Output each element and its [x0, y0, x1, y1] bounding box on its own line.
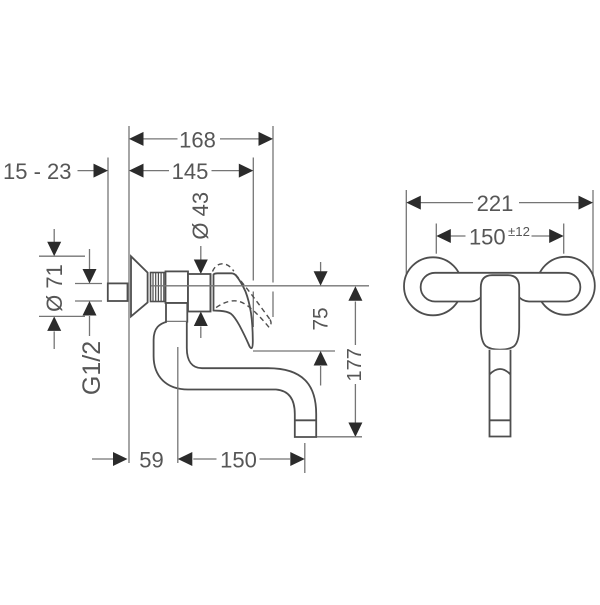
spout tube — [154, 322, 317, 437]
svg-text:168: 168 — [179, 127, 216, 152]
extension line wall-plane (15-23 left reference) — [107, 158, 109, 284]
dim 145 right arrow — [239, 164, 254, 178]
extension line 150 left — [435, 224, 437, 254]
extension line 145 right — [252, 158, 254, 328]
aerator joint line — [295, 419, 316, 421]
spout front bend arc — [490, 369, 511, 375]
extension line wall surface — [128, 126, 130, 463]
dim 150pm12 right arrow — [549, 229, 564, 243]
spout nut — [166, 303, 187, 322]
dim O71 tick top — [39, 255, 85, 257]
extension line spout outlet — [304, 443, 306, 473]
dim 177 line upper — [354, 302, 356, 346]
collar section — [166, 271, 189, 303]
thread lines — [153, 273, 164, 302]
tick 75 bottom (spout outlet level) — [253, 350, 335, 352]
dim 177 top arrow — [348, 286, 362, 301]
dim G1/2 lower stem — [89, 316, 91, 336]
dim 150 left arrow — [178, 452, 193, 466]
dim G1/2 bottom arrow — [83, 301, 97, 316]
dim O43 lower stem — [200, 327, 202, 339]
dim 75 lower stem — [320, 366, 322, 386]
svg-text:75: 75 — [310, 307, 333, 330]
spout front aerator line — [490, 419, 511, 421]
dim 145 left arrow — [129, 164, 144, 178]
dim 221 left arrow — [406, 196, 421, 210]
dim 177 bottom arrow — [348, 423, 362, 438]
svg-text:150: 150 — [220, 448, 257, 473]
dim 75 upper stem — [320, 262, 322, 272]
dim 168 right arrow — [259, 132, 274, 146]
valve body — [188, 274, 211, 312]
dim 15-23 leader line — [78, 170, 96, 172]
tick 177 bottom — [317, 436, 362, 438]
svg-text:Ø 71: Ø 71 — [42, 264, 67, 312]
dim O43 upper stem — [200, 246, 202, 260]
svg-text:±12: ±12 — [508, 224, 530, 239]
handle stem gap line — [210, 274, 212, 312]
dim O71 lower stem — [53, 331, 55, 349]
dim G1/2 tick bottom — [75, 300, 102, 302]
threaded section — [151, 273, 166, 302]
dim 168 line — [131, 138, 260, 140]
dim 221 line — [408, 202, 591, 204]
dim 221 right arrow — [579, 196, 594, 210]
svg-text:59: 59 — [139, 448, 163, 473]
svg-text:Ø 43: Ø 43 — [188, 192, 213, 240]
svg-text:150: 150 — [469, 225, 506, 250]
dim 150pm12 left arrow — [436, 229, 451, 243]
left escutcheon — [404, 257, 462, 315]
dim G1/2 tick top — [75, 283, 102, 285]
lever handle open position (dashed) upper edge — [236, 275, 271, 320]
dim O43 top arrow — [194, 260, 208, 275]
svg-text:177: 177 — [344, 348, 366, 381]
extension line 221 right — [592, 190, 594, 276]
extension line 221 left — [405, 190, 407, 276]
dim G1/2 top arrow — [83, 269, 97, 284]
dim 59 arrow — [113, 452, 128, 466]
dim O71 top arrow — [47, 242, 61, 257]
dim 177 line lower — [354, 384, 356, 423]
dim 75 top arrow — [314, 271, 328, 286]
dim O43 bottom arrow — [194, 312, 208, 327]
extension line 168 right — [272, 126, 274, 317]
dim 150pm12 line — [438, 235, 562, 237]
dim 150 line right — [260, 458, 291, 460]
dim 150 line left — [193, 458, 216, 460]
square wall nipple — [108, 283, 128, 301]
lever handle open position (dashed) tip — [269, 320, 271, 328]
escutcheon cone — [131, 256, 148, 316]
extension line spout axis bottom — [177, 347, 179, 463]
cross bar body — [421, 273, 581, 302]
dim G1/2 upper stem — [89, 249, 91, 270]
lever handle open position (dashed) lower edge — [216, 301, 270, 328]
dim 150 right arrow — [290, 452, 305, 466]
right escutcheon — [537, 257, 595, 315]
extension line 150 right — [563, 224, 565, 254]
dim O71 tick bottom — [39, 315, 85, 317]
centerline of faucet axis — [151, 285, 369, 287]
dim O71 bottom arrow — [47, 316, 61, 331]
dim 75 bottom arrow — [314, 351, 328, 366]
handle front — [481, 275, 519, 349]
dim 15-23 arrow — [94, 164, 109, 178]
svg-text:G1/2: G1/2 — [78, 341, 106, 395]
svg-text:15 - 23: 15 - 23 — [3, 159, 72, 184]
svg-text:221: 221 — [477, 191, 514, 216]
lever handle (solid, closed position) — [214, 273, 253, 348]
lever handle open position (dashed) top arc — [213, 264, 234, 272]
svg-text:145: 145 — [172, 159, 209, 184]
dim O71 upper stem — [53, 229, 55, 242]
dim 145 line — [131, 170, 239, 172]
dim 59 leader — [92, 458, 114, 460]
spout front tube — [490, 350, 511, 437]
dim 168 left arrow — [129, 132, 144, 146]
